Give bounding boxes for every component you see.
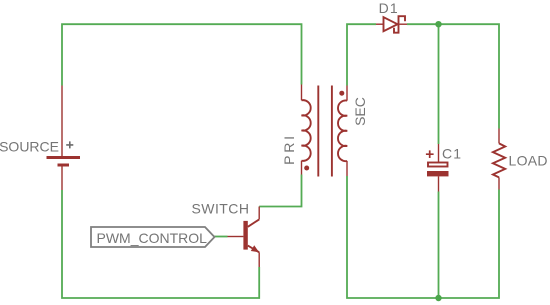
svg-text:SOURCE: SOURCE: [0, 139, 59, 155]
svg-text:PWM_CONTROL: PWM_CONTROL: [97, 230, 208, 246]
svg-text:PRI: PRI: [281, 133, 297, 165]
svg-text:C1: C1: [442, 146, 462, 162]
svg-text:D1: D1: [379, 0, 399, 16]
svg-text:SWITCH: SWITCH: [192, 201, 250, 217]
svg-text:LOAD: LOAD: [509, 153, 548, 169]
svg-text:SEC: SEC: [352, 97, 368, 126]
